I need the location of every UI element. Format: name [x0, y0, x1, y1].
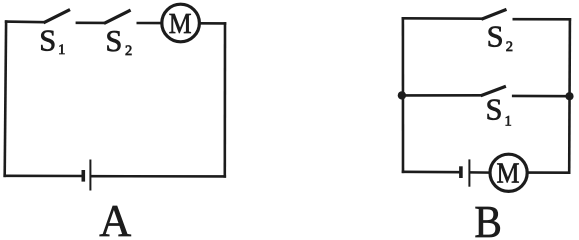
svg-text:S2: S2	[105, 24, 132, 59]
wire: circuit A top, between S1 and S2	[77, 21, 104, 24]
wire: circuit B left side	[402, 18, 405, 172]
junction dot left	[398, 91, 406, 99]
wire: circuit B right side	[568, 19, 571, 172]
switch S1 blade (circuit B)	[481, 86, 506, 96]
wire: circuit B middle branch, dot to S1	[402, 94, 481, 97]
wire: circuit A bottom, battery to corner	[92, 175, 225, 178]
wire: circuit B middle branch, S1 to dot	[513, 95, 569, 98]
svg-text:B: B	[474, 196, 502, 238]
wire: circuit B bottom, battery to motor	[470, 171, 490, 174]
svg-text:M: M	[169, 8, 192, 40]
wire: circuit B bottom, corner to battery	[403, 171, 460, 174]
battery (circuit B)	[461, 159, 470, 186]
svg-text:S2: S2	[487, 20, 513, 56]
battery (circuit A)	[83, 160, 90, 191]
switch S2 blade	[104, 10, 131, 23]
wire: circuit A bottom, corner to battery	[5, 175, 82, 178]
svg-text:M: M	[497, 158, 520, 190]
wire: circuit A right side	[224, 23, 227, 176]
svg-text:S1: S1	[39, 24, 65, 58]
wire: circuit A left side	[5, 22, 6, 176]
wire: circuit A top, S2 to motor	[138, 22, 162, 25]
junction dot right	[565, 92, 573, 100]
wire: circuit B top, corner to S2	[403, 17, 482, 20]
wire: circuit B top, S2 to corner	[514, 18, 570, 21]
switch S2 blade (circuit B)	[481, 9, 506, 19]
switch S1 blade	[44, 10, 71, 23]
wire: circuit B bottom, motor to corner	[527, 171, 569, 174]
svg-text:A: A	[99, 195, 131, 238]
motor M (circuit B)	[490, 154, 527, 191]
motor M (circuit A)	[162, 4, 200, 42]
svg-text:S1: S1	[486, 92, 512, 129]
wire: circuit A top, corner to S1	[6, 20, 43, 23]
wire: circuit A top, motor to corner	[200, 22, 225, 25]
